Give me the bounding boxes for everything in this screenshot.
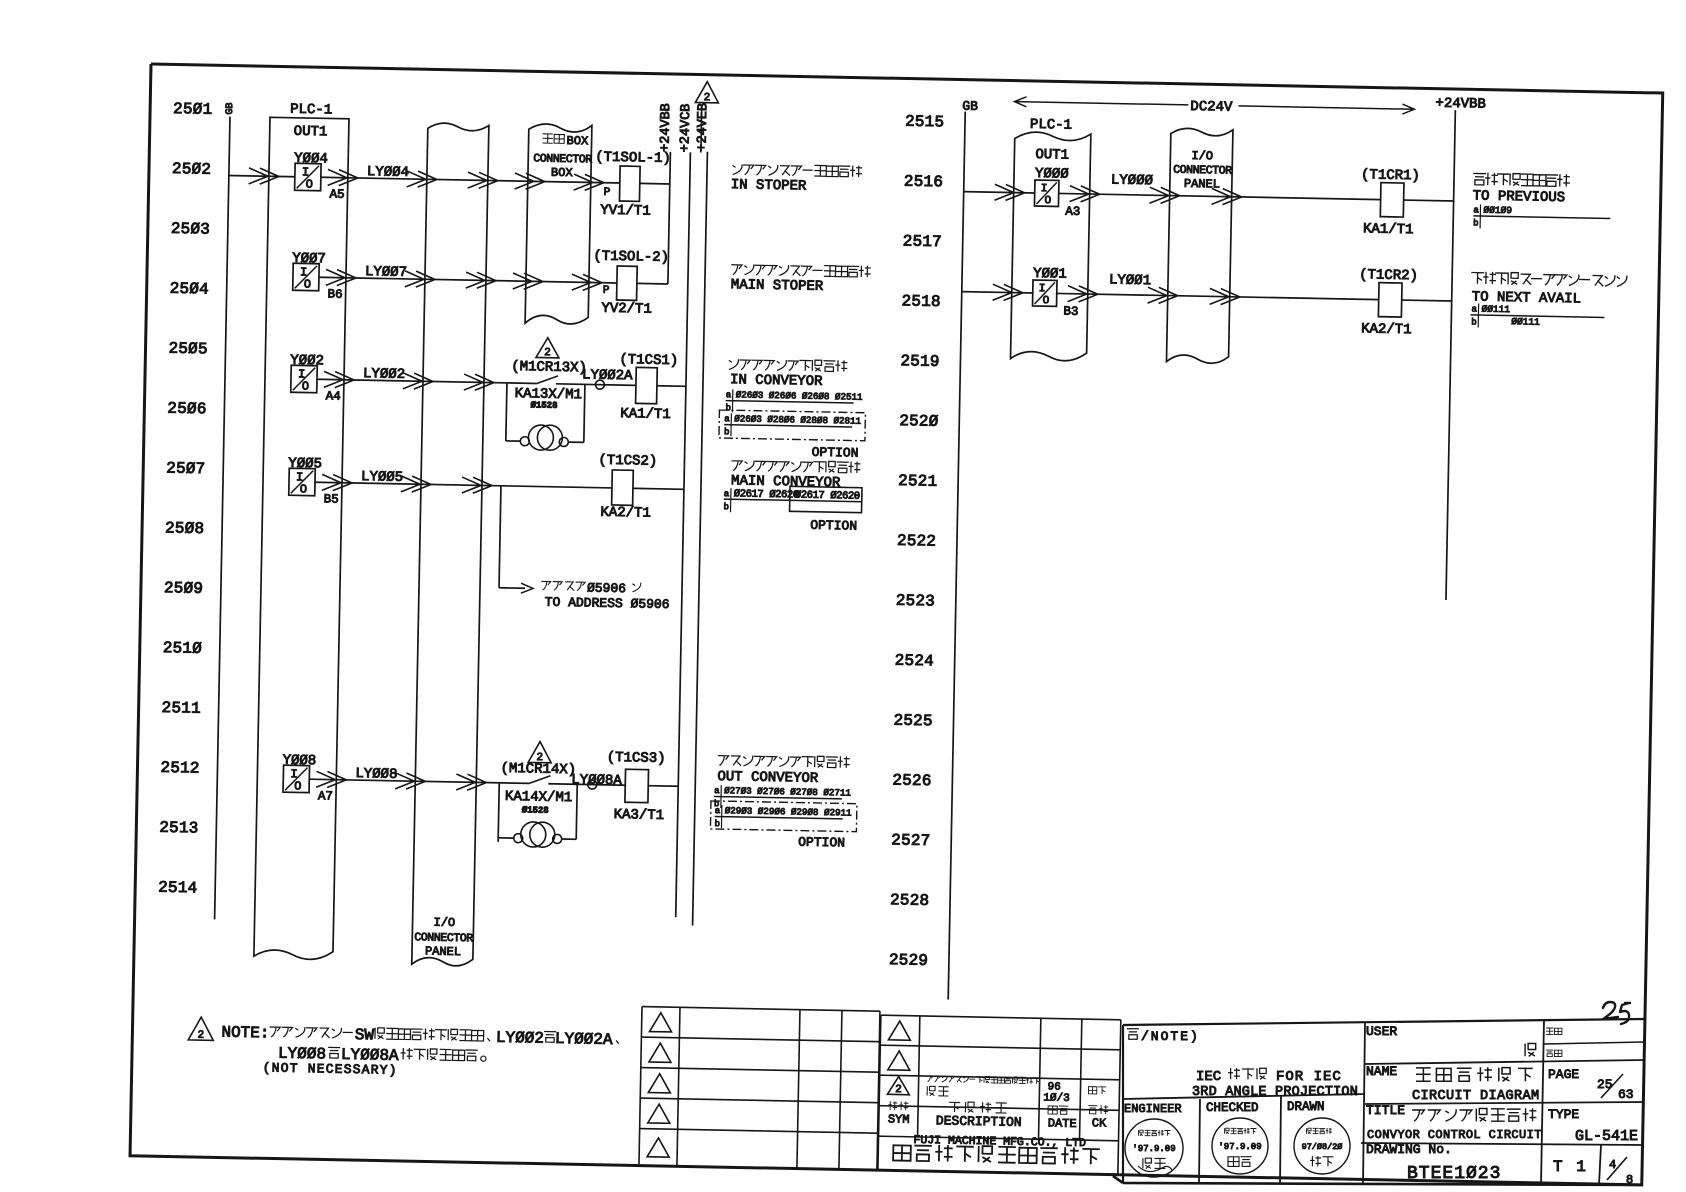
svg-text:DRAWN: DRAWN bbox=[1287, 1100, 1325, 1114]
svg-text:P: P bbox=[603, 187, 610, 199]
svg-text:O: O bbox=[306, 177, 313, 191]
svg-text:CONNECTOR: CONNECTOR bbox=[533, 152, 592, 166]
svg-text:b: b bbox=[714, 819, 720, 829]
svg-text:GL-541E: GL-541E bbox=[1575, 1128, 1638, 1145]
svg-text:B3: B3 bbox=[1063, 305, 1078, 319]
svg-text:PANEL: PANEL bbox=[425, 944, 461, 959]
svg-text:Ø1528: Ø1528 bbox=[530, 400, 557, 411]
svg-text:2511: 2511 bbox=[161, 699, 201, 718]
svg-text:YV1/T1: YV1/T1 bbox=[600, 203, 651, 220]
svg-text:b: b bbox=[1471, 317, 1477, 327]
svg-text:(NOT NECESSARY): (NOT NECESSARY) bbox=[263, 1060, 398, 1078]
svg-text:OUT1: OUT1 bbox=[1035, 147, 1069, 164]
svg-text:63: 63 bbox=[1618, 1087, 1634, 1102]
svg-text:ØØ1Ø9: ØØ1Ø9 bbox=[1483, 205, 1512, 217]
svg-text:+24VCB: +24VCB bbox=[678, 104, 694, 153]
svg-text:LYØØ2: LYØØ2 bbox=[496, 1029, 544, 1048]
svg-text:I: I bbox=[1039, 283, 1046, 295]
svg-text:2527: 2527 bbox=[891, 831, 931, 850]
svg-text:(T1SOL-2): (T1SOL-2) bbox=[593, 249, 669, 266]
svg-text:Ø1528: Ø1528 bbox=[522, 805, 549, 816]
svg-text:A5: A5 bbox=[329, 187, 344, 201]
svg-text:KA14X/M1: KA14X/M1 bbox=[505, 789, 573, 806]
svg-text:CONNECTOR: CONNECTOR bbox=[1173, 164, 1232, 178]
svg-text:CK: CK bbox=[1092, 1116, 1107, 1130]
svg-text:ØØ111: ØØ111 bbox=[1511, 316, 1540, 328]
svg-text:a: a bbox=[726, 390, 732, 400]
svg-text:2: 2 bbox=[197, 1030, 204, 1042]
svg-text:2528: 2528 bbox=[890, 891, 930, 910]
svg-text:BOX: BOX bbox=[551, 166, 573, 180]
svg-text:Ø5906: Ø5906 bbox=[587, 580, 626, 596]
svg-text:2529: 2529 bbox=[889, 951, 929, 970]
svg-text:a: a bbox=[724, 489, 730, 499]
svg-text:2521: 2521 bbox=[898, 472, 938, 491]
svg-text:2514: 2514 bbox=[158, 879, 198, 898]
svg-text:O: O bbox=[300, 482, 307, 496]
svg-text:GB: GB bbox=[962, 99, 978, 114]
svg-text:O: O bbox=[1044, 195, 1051, 207]
svg-text:'97.9.09: '97.9.09 bbox=[1132, 1144, 1175, 1154]
svg-text:DATE: DATE bbox=[1048, 1116, 1077, 1131]
svg-text:ØØ111: ØØ111 bbox=[1481, 304, 1510, 316]
svg-text:OPTION: OPTION bbox=[812, 445, 859, 461]
svg-text:25Ø3: 25Ø3 bbox=[171, 220, 211, 239]
svg-text:O: O bbox=[304, 277, 311, 291]
svg-text:(T1CS3): (T1CS3) bbox=[607, 750, 666, 767]
svg-text:3RD ANGLE PROJECTION: 3RD ANGLE PROJECTION bbox=[1192, 1085, 1358, 1100]
svg-text:KA1/T1: KA1/T1 bbox=[1363, 221, 1414, 238]
svg-text:2526: 2526 bbox=[892, 771, 932, 790]
svg-text:O: O bbox=[302, 379, 309, 393]
svg-text:2512: 2512 bbox=[160, 759, 200, 778]
svg-text:CONVYOR CONTROL CIRCUIT: CONVYOR CONTROL CIRCUIT bbox=[1367, 1128, 1542, 1142]
svg-text:DRAWING No.: DRAWING No. bbox=[1366, 1142, 1452, 1157]
svg-text:(M1CR13X): (M1CR13X) bbox=[511, 359, 587, 376]
svg-text:A7: A7 bbox=[318, 789, 333, 803]
svg-text:OUT1: OUT1 bbox=[294, 124, 328, 141]
svg-text:25: 25 bbox=[1597, 1077, 1613, 1092]
svg-text:(T1CS1): (T1CS1) bbox=[619, 352, 678, 369]
svg-text:a: a bbox=[1473, 205, 1479, 215]
svg-text:25Ø4: 25Ø4 bbox=[170, 280, 210, 299]
svg-text:OUT CONVEYOR: OUT CONVEYOR bbox=[717, 769, 819, 787]
svg-text:I/O: I/O bbox=[1191, 149, 1213, 163]
svg-text:I/O: I/O bbox=[433, 916, 455, 930]
svg-text:TO PREVIOUS: TO PREVIOUS bbox=[1473, 188, 1566, 206]
svg-text:2513: 2513 bbox=[159, 819, 199, 838]
svg-text:CIRCUIT DIAGRAM: CIRCUIT DIAGRAM bbox=[1412, 1089, 1540, 1104]
svg-text:LYØØ2A: LYØØ2A bbox=[555, 1030, 613, 1049]
svg-text:LYØØ1: LYØØ1 bbox=[1109, 272, 1151, 289]
svg-text:IEC: IEC bbox=[1196, 1069, 1221, 1085]
svg-text:B6: B6 bbox=[327, 287, 342, 301]
svg-text:(T1CR2): (T1CR2) bbox=[1359, 267, 1418, 284]
svg-text:b: b bbox=[724, 427, 730, 437]
svg-text:25Ø1: 25Ø1 bbox=[173, 100, 213, 119]
svg-text:USER: USER bbox=[1366, 1024, 1397, 1039]
svg-text:LYØØØ: LYØØØ bbox=[1111, 172, 1153, 189]
svg-text:b: b bbox=[725, 403, 731, 413]
svg-text:25Ø5: 25Ø5 bbox=[168, 340, 208, 359]
svg-text:2525: 2525 bbox=[893, 712, 933, 731]
svg-text:a: a bbox=[1471, 304, 1477, 314]
svg-text:'97.9.09: '97.9.09 bbox=[1218, 1142, 1261, 1152]
svg-text:YØØ2: YØØ2 bbox=[290, 353, 324, 370]
svg-text:2516: 2516 bbox=[904, 173, 944, 192]
svg-text:b: b bbox=[1473, 218, 1479, 228]
svg-text:+24VEB: +24VEB bbox=[695, 103, 711, 152]
svg-text:25Ø2: 25Ø2 bbox=[172, 160, 212, 179]
svg-text:25Ø6: 25Ø6 bbox=[167, 400, 207, 419]
svg-text:OPTION: OPTION bbox=[798, 835, 845, 851]
svg-text:O: O bbox=[294, 779, 301, 793]
svg-text:PLC-1: PLC-1 bbox=[290, 102, 332, 119]
svg-text:2522: 2522 bbox=[897, 532, 937, 551]
svg-text:IN STOPER: IN STOPER bbox=[731, 177, 808, 194]
svg-text:TO ADDRESS Ø5906: TO ADDRESS Ø5906 bbox=[545, 595, 670, 612]
svg-text:I: I bbox=[1041, 183, 1048, 195]
svg-text:A4: A4 bbox=[326, 389, 341, 403]
svg-text:97/Ø8/2Ø: 97/Ø8/2Ø bbox=[1302, 1142, 1343, 1152]
svg-text:25Ø8: 25Ø8 bbox=[165, 519, 205, 538]
svg-text:LYØØ2A: LYØØ2A bbox=[582, 367, 633, 384]
svg-text:O: O bbox=[1042, 295, 1049, 307]
svg-text:YØØ4: YØØ4 bbox=[294, 151, 328, 168]
svg-text:KA1/T1: KA1/T1 bbox=[620, 406, 671, 423]
svg-text:KA2/T1: KA2/T1 bbox=[1361, 321, 1412, 338]
svg-text:MAIN STOPER: MAIN STOPER bbox=[731, 277, 824, 295]
svg-text:CHECKED: CHECKED bbox=[1206, 1101, 1259, 1115]
svg-text:2523: 2523 bbox=[896, 592, 936, 611]
svg-text:2524: 2524 bbox=[895, 652, 935, 671]
svg-text:P: P bbox=[603, 285, 610, 297]
svg-text:T 1: T 1 bbox=[1553, 1158, 1588, 1176]
svg-text:YØØ7: YØØ7 bbox=[292, 251, 326, 268]
svg-text:2: 2 bbox=[895, 1084, 902, 1096]
svg-text:YØØ5: YØØ5 bbox=[288, 456, 322, 473]
svg-text:B5: B5 bbox=[324, 492, 339, 506]
svg-text:BTEE1Ø23: BTEE1Ø23 bbox=[1407, 1164, 1501, 1184]
svg-text:DC24V: DC24V bbox=[1190, 99, 1233, 116]
svg-text:(T1CR1): (T1CR1) bbox=[1361, 167, 1420, 184]
svg-text:OPTION: OPTION bbox=[810, 518, 857, 534]
svg-text:PLC-1: PLC-1 bbox=[1030, 117, 1072, 134]
svg-text:GB: GB bbox=[225, 102, 236, 114]
svg-text:1Ø/3: 1Ø/3 bbox=[1043, 1092, 1070, 1105]
svg-text:LYØØ8A: LYØØ8A bbox=[571, 772, 622, 789]
svg-text:a: a bbox=[715, 806, 721, 816]
svg-text:252Ø: 252Ø bbox=[899, 412, 939, 431]
svg-text:CONNECTOR: CONNECTOR bbox=[414, 931, 473, 945]
svg-text:DESCRIPTION: DESCRIPTION bbox=[936, 1113, 1022, 1130]
svg-text:TYPE: TYPE bbox=[1548, 1107, 1579, 1122]
svg-text:NOTE:: NOTE: bbox=[221, 1024, 269, 1043]
svg-text:FOR IEC: FOR IEC bbox=[1276, 1069, 1342, 1085]
svg-text:NAME: NAME bbox=[1366, 1064, 1397, 1079]
svg-text:ENGINEER: ENGINEER bbox=[1124, 1102, 1182, 1116]
svg-text:PAGE: PAGE bbox=[1548, 1067, 1579, 1082]
svg-text:2515: 2515 bbox=[905, 113, 945, 132]
svg-text:(M1CR14X): (M1CR14X) bbox=[500, 761, 576, 778]
svg-text:2: 2 bbox=[704, 92, 711, 104]
svg-text:BOX: BOX bbox=[566, 134, 588, 148]
svg-text:IN CONVEYOR: IN CONVEYOR bbox=[730, 372, 823, 390]
svg-text:KA2/T1: KA2/T1 bbox=[600, 505, 651, 522]
svg-text:/NOTE): /NOTE) bbox=[1141, 1029, 1200, 1044]
svg-text:SW: SW bbox=[355, 1026, 375, 1044]
svg-text:a: a bbox=[714, 786, 720, 796]
svg-text:YØØ8: YØØ8 bbox=[282, 753, 316, 770]
svg-text:2518: 2518 bbox=[901, 292, 941, 311]
svg-text:a: a bbox=[724, 414, 730, 424]
svg-text:YV2/T1: YV2/T1 bbox=[601, 301, 652, 318]
svg-text:A3: A3 bbox=[1065, 205, 1080, 219]
svg-text:2519: 2519 bbox=[900, 352, 940, 371]
svg-text:25Ø7: 25Ø7 bbox=[166, 459, 206, 478]
svg-text:(T1CS2): (T1CS2) bbox=[598, 453, 657, 470]
svg-text:(T1SOL-1): (T1SOL-1) bbox=[595, 150, 671, 167]
svg-text:+24VBB: +24VBB bbox=[1435, 96, 1486, 113]
svg-text:251Ø: 251Ø bbox=[163, 639, 203, 658]
svg-text:SYM: SYM bbox=[888, 1112, 910, 1126]
svg-text:+24VBB: +24VBB bbox=[658, 103, 674, 152]
svg-text:25Ø9: 25Ø9 bbox=[164, 579, 204, 598]
svg-text:KA3/T1: KA3/T1 bbox=[614, 807, 665, 824]
svg-text:TITLE: TITLE bbox=[1366, 1103, 1405, 1118]
svg-text:b: b bbox=[724, 502, 730, 512]
svg-text:8: 8 bbox=[1626, 1173, 1633, 1187]
svg-text:2: 2 bbox=[544, 347, 551, 359]
svg-text:2517: 2517 bbox=[903, 232, 943, 251]
